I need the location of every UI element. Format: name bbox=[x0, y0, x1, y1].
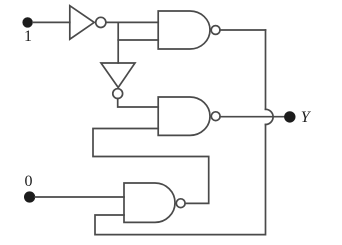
node: input terminal "1" bbox=[22, 17, 32, 27]
wire: vertical feedback lower part, bottom rail, up to U5 bottom input bbox=[95, 125, 266, 235]
wire: input 0 to U5 top input bbox=[35, 196, 124, 198]
svg-text:1: 1 bbox=[24, 28, 32, 45]
svg-text:0: 0 bbox=[25, 173, 33, 190]
svg-text:Y: Y bbox=[301, 109, 312, 126]
wire hop over Y output wire bbox=[266, 109, 274, 124]
wire: junction at x=118 down to inverter U2 bbox=[117, 22, 119, 63]
wire: U2 output down and right to NAND U4 top input bbox=[118, 99, 159, 108]
nand U3 (top) bbox=[158, 11, 220, 49]
node: output terminal Y bbox=[284, 111, 295, 122]
wire: input 1 to inverter U1 bbox=[33, 21, 70, 23]
wire: vertical feedback from U3 output, upper part bbox=[265, 30, 267, 109]
node: input terminal "0" bbox=[24, 191, 35, 202]
wire: U1 output to NAND U3 top input bbox=[106, 21, 158, 23]
wire: branch to NAND U3 bottom input bbox=[118, 39, 158, 41]
wire: U5 output up and left to U4 bottom input bbox=[93, 129, 209, 204]
wire: U3 output right bbox=[220, 29, 266, 31]
wire: U4 output to node Y bbox=[220, 116, 284, 118]
inverter U1 bbox=[70, 6, 106, 40]
nand U5 (bottom) bbox=[124, 183, 185, 222]
nand U4 (middle) bbox=[158, 97, 220, 135]
inverter U2 bbox=[101, 63, 135, 99]
